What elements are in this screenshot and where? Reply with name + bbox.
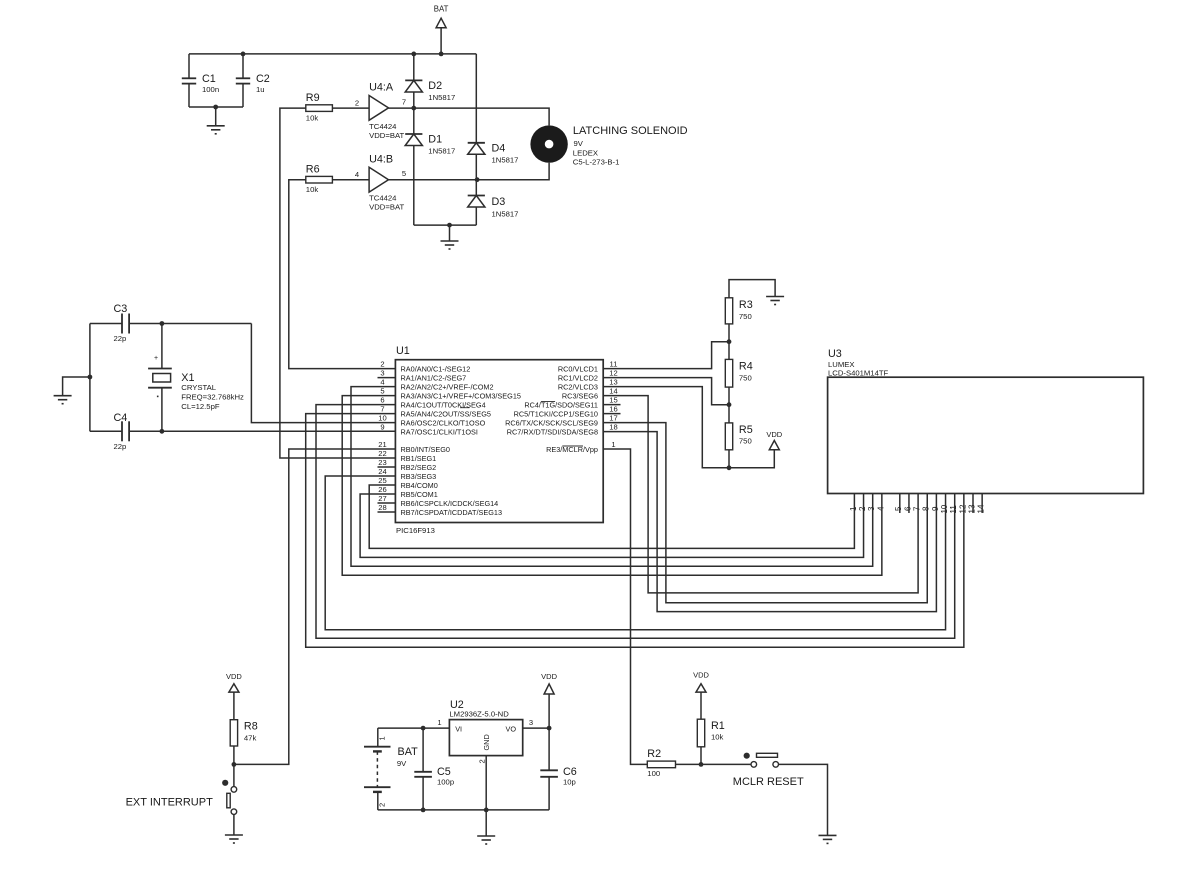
svg-text:26: 26 bbox=[378, 485, 386, 494]
buffer U4:A bbox=[369, 96, 388, 121]
svg-text:RA7/OSC1/CLKI/T1OSI: RA7/OSC1/CLKI/T1OSI bbox=[401, 427, 478, 436]
svg-text:VDD: VDD bbox=[693, 671, 709, 680]
node VLCD3 bbox=[727, 465, 732, 470]
svg-text:16: 16 bbox=[609, 405, 617, 414]
svg-text:RA5/AN4/C2OUT/SS/SEG5: RA5/AN4/C2OUT/SS/SEG5 bbox=[401, 409, 491, 418]
resistor R6 bbox=[306, 176, 333, 183]
svg-text:4: 4 bbox=[380, 378, 384, 387]
svg-text:RC1/VLCD2: RC1/VLCD2 bbox=[558, 373, 598, 382]
svg-text:RA2/AN2/C2+/VREF-/COM2: RA2/AN2/C2+/VREF-/COM2 bbox=[401, 382, 494, 391]
svg-text:RA4/C1OUT/T0CKI/SEG4: RA4/C1OUT/T0CKI/SEG4 bbox=[401, 400, 486, 409]
svg-text:RC5/T1CKI/CCP1/SEG10: RC5/T1CKI/CCP1/SEG10 bbox=[514, 409, 598, 418]
svg-text:R5: R5 bbox=[739, 424, 753, 436]
latching solenoid LS1 bbox=[530, 125, 567, 162]
wire battery to VI bbox=[378, 727, 450, 729]
wire U1 pin 12 to VLCD2 node bbox=[603, 378, 729, 405]
resistor R2 bbox=[647, 761, 675, 768]
svg-text:11: 11 bbox=[610, 360, 618, 369]
svg-text:9V: 9V bbox=[574, 139, 584, 148]
svg-text:2: 2 bbox=[477, 759, 486, 763]
ground driver bbox=[449, 225, 451, 241]
node BAT-flag bbox=[439, 52, 444, 57]
capacitor C2 bbox=[242, 54, 244, 78]
svg-text:750: 750 bbox=[739, 374, 752, 383]
svg-text:10k: 10k bbox=[306, 114, 319, 123]
svg-text:GND: GND bbox=[482, 734, 491, 750]
svg-text:U1: U1 bbox=[396, 345, 410, 357]
svg-text:C6: C6 bbox=[563, 766, 577, 778]
svg-text:C3: C3 bbox=[114, 303, 128, 315]
svg-text:CRYSTAL: CRYSTAL bbox=[181, 383, 216, 392]
overline SS on RA5 bbox=[460, 407, 470, 409]
U1 unconnected stubs pins 15 16 bbox=[603, 405, 620, 414]
resistor R4 bbox=[725, 359, 732, 387]
svg-text:4: 4 bbox=[355, 170, 359, 179]
svg-text:1u: 1u bbox=[256, 85, 265, 94]
svg-text:+: + bbox=[154, 355, 158, 362]
wire SEG8: U1 pin18 to U3 pin9 bbox=[603, 432, 936, 612]
svg-text:22p: 22p bbox=[114, 334, 127, 343]
wire U1 pin 13 to VLCD3 node bbox=[603, 387, 729, 468]
svg-text:18: 18 bbox=[609, 423, 617, 432]
svg-text:VO: VO bbox=[505, 725, 516, 734]
wire button to ground bbox=[233, 814, 235, 835]
svg-text:C5: C5 bbox=[437, 766, 451, 778]
svg-text:3: 3 bbox=[529, 718, 533, 727]
svg-text:1: 1 bbox=[849, 506, 858, 511]
button MCLR RESET bbox=[744, 753, 750, 759]
U1 right pin labels bbox=[505, 364, 598, 453]
capacitor C3 bbox=[90, 323, 122, 325]
diode D3 bbox=[468, 195, 485, 197]
wire D1 to ground rail bbox=[413, 146, 415, 226]
svg-text:4: 4 bbox=[876, 506, 885, 511]
svg-text:R6: R6 bbox=[306, 164, 320, 176]
buffer U4:B bbox=[369, 167, 388, 192]
svg-text:13: 13 bbox=[609, 378, 617, 387]
node BAT-D2 bbox=[411, 52, 416, 57]
svg-text:9: 9 bbox=[931, 506, 940, 511]
node VLCD1 bbox=[727, 339, 732, 344]
svg-text:MCLR RESET: MCLR RESET bbox=[733, 776, 804, 788]
wire COM1: U1 pin26 to U3 pin2 bbox=[360, 494, 863, 558]
resistor R9 bbox=[306, 105, 333, 112]
diode D2 bbox=[405, 79, 422, 81]
svg-text:22p: 22p bbox=[114, 442, 127, 451]
node U4A-D1D2 bbox=[411, 106, 416, 111]
svg-text:14: 14 bbox=[977, 504, 986, 513]
resistor R3 bbox=[725, 298, 732, 324]
svg-text:47k: 47k bbox=[244, 734, 257, 743]
svg-text:LCD-S401M14TF: LCD-S401M14TF bbox=[828, 369, 889, 378]
wire crystal left leg bbox=[89, 324, 91, 432]
node gnd tap bbox=[88, 375, 93, 380]
svg-text:VDD=BAT: VDD=BAT bbox=[369, 131, 404, 140]
U1 left pin numbers bbox=[378, 360, 386, 512]
svg-text:750: 750 bbox=[739, 437, 752, 446]
svg-text:3: 3 bbox=[380, 369, 384, 378]
wire U4:B output to solenoid return bbox=[389, 163, 550, 180]
resistor R8 bbox=[230, 720, 237, 746]
svg-text:D3: D3 bbox=[492, 196, 506, 208]
svg-text:100p: 100p bbox=[437, 778, 454, 787]
svg-text:10p: 10p bbox=[563, 778, 576, 787]
svg-text:R9: R9 bbox=[306, 92, 320, 104]
U3 pin numbers bbox=[849, 504, 986, 513]
ground U2 bbox=[485, 810, 487, 836]
svg-text:D1: D1 bbox=[428, 134, 442, 146]
svg-text:PIC16F913: PIC16F913 bbox=[396, 526, 435, 535]
node driver gnd bbox=[447, 223, 452, 228]
svg-text:RA6/OSC2/CLKO/T1OSO: RA6/OSC2/CLKO/T1OSO bbox=[401, 418, 486, 427]
wire R3 top to ground bbox=[729, 280, 775, 298]
wire R5 bottom bbox=[728, 450, 730, 468]
overline T1G on RC4 bbox=[541, 401, 555, 403]
svg-text:100n: 100n bbox=[202, 85, 219, 94]
svg-text:TC4424: TC4424 bbox=[369, 194, 397, 203]
svg-text:BAT: BAT bbox=[434, 5, 449, 14]
wire RE3/MCLR to R2 bbox=[603, 449, 647, 764]
node U4B-D3D4 bbox=[475, 177, 480, 182]
svg-text:LM2936Z-5.0-ND: LM2936Z-5.0-ND bbox=[449, 710, 509, 719]
svg-text:12: 12 bbox=[609, 369, 617, 378]
wire RA0 to R6 bbox=[289, 180, 396, 369]
svg-text:6: 6 bbox=[380, 396, 384, 405]
svg-text:8: 8 bbox=[922, 506, 931, 511]
svg-text:RC2/VLCD3: RC2/VLCD3 bbox=[558, 382, 598, 391]
svg-text:RC7/RX/DT/SDI/SDA/SEG8: RC7/RX/DT/SDI/SDA/SEG8 bbox=[507, 427, 598, 436]
wire COM0: U1 pin25 to U3 pin1 bbox=[369, 485, 854, 548]
svg-text:750: 750 bbox=[739, 312, 752, 321]
battery BAT 9V bbox=[377, 728, 379, 747]
svg-text:13: 13 bbox=[967, 504, 976, 513]
power flag VDD (LCD bias) bbox=[769, 441, 779, 450]
svg-text:27: 27 bbox=[378, 494, 386, 503]
svg-text:1N5817: 1N5817 bbox=[492, 156, 519, 165]
capacitor C1 bbox=[188, 54, 190, 78]
svg-text:EXT INTERRUPT: EXT INTERRUPT bbox=[126, 796, 213, 808]
node C1C2-gnd bbox=[213, 105, 218, 110]
svg-text:VDD: VDD bbox=[541, 672, 557, 681]
svg-text:10k: 10k bbox=[306, 185, 319, 194]
svg-text:12: 12 bbox=[958, 504, 967, 513]
svg-text:RB4/COM0: RB4/COM0 bbox=[401, 481, 438, 490]
ground MCLR bbox=[819, 834, 837, 836]
wire U1 pin 11 to VLCD1 node bbox=[603, 342, 729, 369]
svg-text:RB2/SEG2: RB2/SEG2 bbox=[401, 463, 437, 472]
svg-text:10: 10 bbox=[378, 414, 386, 423]
svg-text:2: 2 bbox=[355, 99, 359, 108]
wire R8 to button bbox=[233, 746, 235, 787]
svg-text:U3: U3 bbox=[828, 348, 842, 360]
capacitor C6 bbox=[548, 728, 550, 770]
button EXT INTERRUPT bbox=[222, 780, 228, 786]
wire U2 GND pin bbox=[485, 756, 487, 810]
svg-text:21: 21 bbox=[378, 440, 386, 449]
wire R6 to U4B input bbox=[332, 179, 369, 181]
svg-text:RB5/COM1: RB5/COM1 bbox=[401, 490, 438, 499]
svg-text:14: 14 bbox=[609, 387, 617, 396]
svg-text:R1: R1 bbox=[711, 720, 725, 732]
wire OSC1 to U1 pin 9 bbox=[129, 430, 395, 432]
svg-text:2: 2 bbox=[380, 360, 384, 369]
wire U4:A output to solenoid bbox=[389, 108, 550, 125]
svg-text:CL=12.5pF: CL=12.5pF bbox=[181, 402, 220, 411]
svg-text:1: 1 bbox=[378, 736, 387, 740]
wire ground rail of driver bbox=[414, 224, 477, 226]
wire R4-R5 bbox=[728, 387, 730, 423]
svg-text:R8: R8 bbox=[244, 721, 258, 733]
wire RB0 to EXT INTERRUPT bbox=[234, 449, 396, 764]
svg-text:17: 17 bbox=[609, 414, 617, 423]
svg-text:7: 7 bbox=[402, 98, 406, 107]
svg-text:2: 2 bbox=[858, 506, 867, 511]
svg-text:RB3/SEG3: RB3/SEG3 bbox=[401, 472, 437, 481]
resistor R1 bbox=[697, 719, 704, 747]
svg-text:1: 1 bbox=[611, 440, 615, 449]
wire R9 to U4A input bbox=[332, 107, 369, 109]
svg-text:7: 7 bbox=[913, 506, 922, 511]
svg-text:C2: C2 bbox=[256, 73, 270, 85]
svg-text:C5-L-273-B-1: C5-L-273-B-1 bbox=[573, 158, 620, 167]
svg-text:RB1/SEG1: RB1/SEG1 bbox=[401, 454, 437, 463]
svg-text:1N5817: 1N5817 bbox=[428, 147, 455, 156]
svg-text:7: 7 bbox=[380, 405, 384, 414]
wire D4-D3 branch bbox=[475, 54, 477, 143]
U3 unconnected stubs pins 5 6 13 14 bbox=[900, 494, 982, 514]
wire RB1 to R9 bbox=[280, 108, 396, 458]
svg-text:25: 25 bbox=[378, 476, 386, 485]
svg-text:D4: D4 bbox=[492, 143, 506, 155]
svg-text:1N5817: 1N5817 bbox=[492, 210, 519, 219]
svg-text:10: 10 bbox=[940, 504, 949, 513]
svg-text:22: 22 bbox=[378, 449, 386, 458]
node C5 top bbox=[421, 726, 426, 731]
svg-text:RB6/ICSPCLK/ICDCK/SEG14: RB6/ICSPCLK/ICDCK/SEG14 bbox=[401, 499, 499, 508]
wire BAT rail bbox=[189, 53, 476, 55]
wire OSC2 to U1 pin 10 bbox=[251, 324, 395, 423]
wire SEG5: U1 pin7 to U3 pin12 bbox=[306, 414, 964, 648]
wire R1 to node bbox=[700, 747, 702, 765]
svg-text:D2: D2 bbox=[428, 80, 442, 92]
diode D4 bbox=[468, 142, 485, 144]
wire bottom rail U2 bbox=[378, 809, 549, 811]
capacitor C5 bbox=[422, 728, 424, 772]
wire SEG3: U1 pin24 to U3 pin10 bbox=[325, 476, 945, 630]
svg-text:RA0/AN0/C1-/SEG12: RA0/AN0/C1-/SEG12 bbox=[401, 364, 471, 373]
wire SEG4: U1 pin6 to U3 pin11 bbox=[316, 405, 955, 639]
svg-text:24: 24 bbox=[378, 467, 386, 476]
wire COM2: U1 pin4 to U3 pin3 bbox=[351, 387, 873, 567]
wire VO to VDD bbox=[523, 727, 549, 729]
svg-text:VDD=BAT: VDD=BAT bbox=[369, 203, 404, 212]
node U2 gnd bbox=[484, 808, 489, 813]
node C3-X1 bbox=[160, 321, 165, 326]
regulator U2 LM2936Z-5.0-ND bbox=[449, 720, 522, 756]
svg-text:RC4/T1G/SDO/SEG11: RC4/T1G/SDO/SEG11 bbox=[524, 400, 598, 409]
overline MCLR on RE3 bbox=[562, 445, 583, 447]
U1 right pin numbers bbox=[609, 360, 617, 449]
ground R3 bbox=[766, 296, 784, 298]
svg-text:23: 23 bbox=[378, 458, 386, 467]
svg-text:LATCHING SOLENOID: LATCHING SOLENOID bbox=[573, 125, 688, 137]
svg-text:VI: VI bbox=[455, 725, 462, 734]
ground crystal bbox=[63, 377, 90, 396]
wire C1-C2 bottom bbox=[189, 106, 243, 108]
node RB0-R8 bbox=[232, 762, 237, 767]
svg-text:R4: R4 bbox=[739, 361, 753, 373]
node C4-X1 bbox=[160, 429, 165, 434]
wire button to ground (MCLR) bbox=[778, 764, 827, 835]
svg-text:C1: C1 bbox=[202, 73, 216, 85]
svg-text:RB7/ICSPDAT/ICDDAT/SEG13: RB7/ICSPDAT/ICDDAT/SEG13 bbox=[401, 508, 503, 517]
svg-text:RC3/SEG6: RC3/SEG6 bbox=[562, 391, 598, 400]
power flag VDD (U2 out) bbox=[548, 694, 550, 728]
wire D3 to ground rail bbox=[475, 207, 477, 225]
svg-text:5: 5 bbox=[894, 506, 903, 511]
svg-text:FREQ=32.768kHz: FREQ=32.768kHz bbox=[181, 393, 244, 402]
svg-text:LEDEX: LEDEX bbox=[573, 149, 598, 158]
svg-text:1: 1 bbox=[437, 718, 441, 727]
wire SEG6: U1 pin14 to U3 pin7 bbox=[603, 396, 918, 593]
svg-text:RB0/INT/SEG0: RB0/INT/SEG0 bbox=[401, 445, 450, 454]
svg-text:2: 2 bbox=[378, 803, 387, 807]
node VLCD2 bbox=[727, 402, 732, 407]
U1 unconnected stubs pins 3 23 27 28 bbox=[378, 378, 396, 512]
node C6 top bbox=[547, 726, 552, 731]
svg-text:9V: 9V bbox=[397, 759, 407, 768]
node C5 bottom bbox=[421, 808, 426, 813]
svg-text:1N5817: 1N5817 bbox=[428, 93, 455, 102]
svg-text:9: 9 bbox=[380, 423, 384, 432]
wire R3-R4 bbox=[728, 324, 730, 360]
svg-text:RC6/TX/CK/SCK/SCL/SEG9: RC6/TX/CK/SCK/SCL/SEG9 bbox=[505, 418, 598, 427]
svg-text:28: 28 bbox=[378, 503, 386, 512]
svg-text:VDD: VDD bbox=[226, 672, 242, 681]
svg-text:5: 5 bbox=[380, 387, 384, 396]
wire SEG9: U1 pin17 to U3 pin8 bbox=[603, 423, 927, 603]
svg-text:C4: C4 bbox=[114, 412, 128, 424]
diode D1 bbox=[405, 133, 422, 135]
svg-text:U4:B: U4:B bbox=[369, 154, 393, 166]
svg-text:11: 11 bbox=[949, 505, 958, 514]
svg-text:100: 100 bbox=[647, 769, 660, 778]
svg-text:U4:A: U4:A bbox=[369, 82, 394, 94]
svg-text:R3: R3 bbox=[739, 299, 753, 311]
svg-text:BAT: BAT bbox=[398, 746, 419, 758]
crystal X1 bbox=[161, 324, 163, 369]
ground C1/C2 bbox=[215, 107, 217, 126]
svg-text:6: 6 bbox=[903, 506, 912, 511]
wire D2-D1 branch bbox=[413, 54, 415, 81]
svg-text:TC4424: TC4424 bbox=[369, 122, 397, 131]
node R1-MCLR bbox=[699, 762, 704, 767]
svg-text:RC0/VLCD1: RC0/VLCD1 bbox=[558, 364, 598, 373]
wire COM3: U1 pin5 to U3 pin4 bbox=[342, 396, 882, 576]
capacitor C4 bbox=[90, 430, 122, 432]
LCD U3 LUMEX LCD-S401M14TF bbox=[828, 377, 1144, 493]
svg-text:RA3/AN3/C1+/VREF+/COM3/SEG15: RA3/AN3/C1+/VREF+/COM3/SEG15 bbox=[401, 391, 521, 400]
wire R2 to button bbox=[676, 763, 752, 765]
microcontroller U1 PIC16F913 bbox=[395, 360, 603, 523]
ground EXT INTERRUPT bbox=[225, 834, 243, 836]
svg-text:15: 15 bbox=[609, 396, 617, 405]
node BAT-C2 bbox=[241, 52, 246, 57]
svg-text:RA1/AN1/C2-/SEG7: RA1/AN1/C2-/SEG7 bbox=[401, 373, 467, 382]
wire VLCD3 to VDD bbox=[729, 450, 774, 468]
resistor R5 bbox=[725, 423, 732, 450]
svg-text:VDD: VDD bbox=[766, 430, 782, 439]
U1 left pin labels bbox=[401, 364, 521, 516]
svg-text:5: 5 bbox=[402, 169, 406, 178]
svg-text:3: 3 bbox=[867, 506, 876, 511]
svg-text:R2: R2 bbox=[647, 748, 661, 760]
svg-text:10k: 10k bbox=[711, 733, 724, 742]
